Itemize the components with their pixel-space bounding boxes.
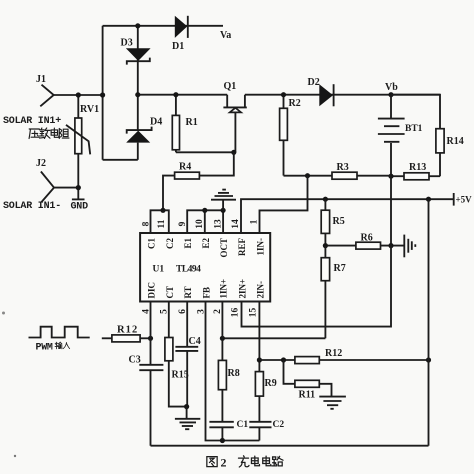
resistor R15 bbox=[165, 302, 189, 407]
resistor R13 bbox=[391, 162, 440, 180]
svg-text:R12: R12 bbox=[325, 348, 342, 359]
svg-text:Vb: Vb bbox=[385, 82, 398, 93]
svg-text:E1: E1 bbox=[183, 238, 193, 249]
svg-text:C2: C2 bbox=[165, 238, 175, 249]
svg-text:Q1: Q1 bbox=[224, 81, 237, 92]
wire R2 bottom to R3 node bbox=[284, 175, 308, 177]
wire pin4 line bbox=[150, 302, 152, 446]
svg-text:8: 8 bbox=[142, 221, 152, 226]
wire right vertical 428 bbox=[428, 199, 430, 446]
wire pins 9 10 13 bracket bbox=[187, 210, 223, 233]
node R15 C4 ground junction bbox=[184, 404, 189, 409]
label Vb bbox=[385, 82, 398, 93]
svg-text:RT: RT bbox=[183, 286, 193, 298]
svg-text:R12: R12 bbox=[117, 325, 138, 336]
node RV1-J2-GND junction bbox=[76, 185, 81, 190]
svg-text:Va: Va bbox=[220, 30, 231, 41]
label 压敏电阻 bbox=[29, 128, 69, 139]
wire left rail bbox=[102, 26, 104, 160]
node C1 FB junction bbox=[220, 438, 225, 443]
svg-text:2IN-: 2IN- bbox=[255, 281, 265, 299]
pin names top row bbox=[147, 237, 266, 257]
svg-text:1IN+: 1IN+ bbox=[218, 279, 228, 299]
node R4 bracket junction bbox=[160, 208, 165, 213]
svg-text:R3: R3 bbox=[337, 162, 349, 173]
svg-text:C2: C2 bbox=[273, 420, 285, 430]
svg-text:R6: R6 bbox=[361, 233, 373, 244]
wire R1 bottom to gate node bbox=[176, 151, 234, 153]
resistor R8 bbox=[218, 302, 239, 422]
svg-text:SOLAR IN1-: SOLAR IN1- bbox=[3, 201, 61, 212]
svg-text:R9: R9 bbox=[265, 378, 277, 389]
svg-text:C4: C4 bbox=[189, 336, 201, 347]
svg-text:C1: C1 bbox=[237, 420, 249, 430]
ground below R11 bbox=[319, 397, 346, 409]
svg-text:BT1: BT1 bbox=[405, 124, 423, 134]
resistor R4 bbox=[163, 162, 199, 211]
wire D3 branch vertical bbox=[137, 26, 139, 95]
wire top rail bbox=[103, 25, 223, 27]
svg-text:9: 9 bbox=[178, 221, 188, 226]
wire 2IN+ to battery minus bbox=[242, 246, 392, 327]
pin names bottom row bbox=[147, 279, 266, 299]
svg-text:2: 2 bbox=[221, 456, 227, 470]
wire D4 bottom to left rail bbox=[103, 159, 138, 161]
svg-text:13: 13 bbox=[213, 219, 223, 229]
svg-text:DIC: DIC bbox=[147, 282, 157, 299]
svg-text:RV1: RV1 bbox=[80, 104, 99, 115]
wire R12 rail bbox=[259, 359, 428, 361]
svg-text:D2: D2 bbox=[308, 77, 320, 88]
svg-text:2IN+: 2IN+ bbox=[238, 279, 248, 299]
capacitor C1 bbox=[209, 420, 248, 441]
svg-text:R5: R5 bbox=[333, 216, 345, 227]
svg-text:D4: D4 bbox=[150, 117, 162, 128]
svg-text:GND: GND bbox=[71, 202, 89, 213]
svg-text:1: 1 bbox=[250, 219, 260, 224]
op-amp U1 TL494 box bbox=[140, 233, 270, 302]
label SOLAR IN1+ bbox=[3, 116, 61, 127]
wire pin15 down bbox=[258, 302, 260, 361]
node pin4 R12 junction bbox=[148, 336, 153, 341]
svg-text:TL494: TL494 bbox=[176, 265, 201, 275]
svg-text:R1: R1 bbox=[186, 117, 198, 128]
node R2 top junction bbox=[281, 92, 286, 97]
svg-text:U1: U1 bbox=[153, 265, 165, 275]
svg-text:+5V: +5V bbox=[456, 195, 473, 205]
resistor R9 bbox=[255, 360, 276, 422]
terminal +5V bbox=[454, 193, 472, 206]
node left rail junction bbox=[100, 92, 105, 97]
svg-text:C1: C1 bbox=[147, 238, 157, 249]
wire J2 to RV1 bottom bbox=[54, 187, 78, 189]
node +5V R5 junction bbox=[323, 197, 328, 202]
resistor R14 bbox=[436, 129, 464, 177]
wire Vb to R14 top bbox=[391, 95, 440, 129]
resistor R6 bbox=[325, 233, 404, 250]
ground GND bar bbox=[71, 188, 89, 213]
node pin15 R12 junction bbox=[257, 357, 262, 362]
resistor R1 bbox=[172, 95, 197, 153]
connector J1 bbox=[36, 74, 54, 106]
wire bottom rail bbox=[151, 445, 429, 447]
resistor R5 bbox=[321, 199, 345, 245]
label PWM输入 bbox=[36, 342, 70, 353]
svg-text:PWM: PWM bbox=[36, 343, 53, 354]
svg-text:J1: J1 bbox=[36, 74, 46, 85]
svg-text:D1: D1 bbox=[172, 41, 184, 52]
wire +5V rail bbox=[241, 199, 454, 233]
svg-text:15: 15 bbox=[248, 308, 258, 318]
node R12 rail right junction bbox=[426, 357, 431, 362]
wire pins 8 11 bracket bbox=[151, 210, 169, 233]
svg-text:11: 11 bbox=[157, 219, 167, 228]
wire R7 bottom to 1IN+ bbox=[222, 337, 325, 339]
ground right of R6 bbox=[404, 235, 415, 258]
capacitor C2 bbox=[249, 420, 284, 441]
ground above IC inverted bbox=[211, 190, 236, 211]
node R3 left junction bbox=[305, 173, 310, 178]
svg-text:R4: R4 bbox=[179, 162, 191, 173]
capacitor C3 bbox=[129, 355, 164, 371]
svg-text:R7: R7 bbox=[334, 263, 346, 274]
node R1 top junction bbox=[173, 92, 178, 97]
svg-text:R14: R14 bbox=[447, 136, 464, 147]
label Va bbox=[220, 30, 231, 41]
diode D2 bbox=[308, 77, 334, 106]
svg-text:R15: R15 bbox=[172, 370, 189, 381]
transistor Q1 bbox=[223, 81, 246, 152]
svg-text:REF: REF bbox=[237, 237, 247, 256]
node battery bottom junction bbox=[388, 174, 393, 179]
zener diode D4 bbox=[126, 95, 162, 160]
resistor R12 input bbox=[102, 325, 151, 342]
wire main rail y95 bbox=[138, 94, 440, 96]
wire gate node down to R4 bbox=[199, 152, 233, 175]
svg-text:C3: C3 bbox=[129, 355, 141, 366]
svg-text:OCT: OCT bbox=[219, 238, 229, 258]
svg-text:1IN-: 1IN- bbox=[256, 238, 266, 256]
connector J2 bbox=[36, 158, 54, 202]
svg-text:R8: R8 bbox=[228, 368, 240, 379]
node R6 battery-minus junction bbox=[388, 243, 393, 248]
node R11 branch junction bbox=[281, 357, 286, 362]
svg-text:16: 16 bbox=[231, 308, 241, 318]
svg-text:R11: R11 bbox=[299, 390, 316, 401]
resistor R3 bbox=[308, 162, 392, 179]
node gate junction bbox=[231, 150, 236, 155]
svg-text:CT: CT bbox=[165, 286, 175, 299]
node pin10 junction bbox=[202, 208, 207, 213]
resistor R11 bbox=[284, 360, 332, 401]
svg-text:R2: R2 bbox=[289, 98, 301, 109]
wire feedback to pin1 bbox=[260, 176, 308, 233]
node Vb junction bbox=[388, 92, 393, 97]
battery BT1 bbox=[378, 95, 423, 176]
resistor R2 bbox=[280, 95, 301, 176]
resistor R7 bbox=[321, 246, 346, 339]
pin numbers bottom bbox=[141, 308, 258, 318]
node +5V right junction bbox=[426, 197, 431, 202]
label SOLAR IN1- bbox=[3, 201, 61, 212]
varistor RV1 bbox=[66, 95, 99, 188]
capacitor C4 bbox=[175, 302, 200, 407]
node 1IN+ junction bbox=[220, 336, 225, 341]
ground below C4 bbox=[175, 407, 200, 430]
svg-text:14: 14 bbox=[231, 219, 241, 229]
wire J1 to rail bbox=[54, 94, 103, 96]
svg-text:SOLAR IN1+: SOLAR IN1+ bbox=[3, 116, 61, 127]
zener diode D3 bbox=[121, 38, 151, 65]
svg-text:10: 10 bbox=[195, 219, 205, 229]
svg-text:D3: D3 bbox=[121, 38, 133, 49]
svg-text:J2: J2 bbox=[36, 158, 46, 169]
node J1 junction bbox=[76, 92, 81, 97]
resistor R12 right bbox=[295, 348, 342, 364]
diode D1 bbox=[172, 16, 188, 52]
pin numbers top bbox=[142, 219, 260, 229]
caption 图 2 充电电路 bbox=[207, 456, 283, 470]
svg-text:E2: E2 bbox=[201, 238, 211, 249]
node top rail D3 junction bbox=[135, 23, 140, 28]
svg-text:FB: FB bbox=[202, 287, 212, 299]
wire battery minus down bbox=[390, 176, 392, 245]
node pin13 junction bbox=[221, 208, 226, 213]
node rail-D3D4 junction bbox=[135, 92, 140, 97]
node R5-R6-R7 junction bbox=[323, 243, 328, 248]
svg-text:R13: R13 bbox=[409, 162, 426, 173]
wire pin3 FB down bbox=[206, 302, 260, 441]
PWM waveform bbox=[29, 327, 90, 338]
